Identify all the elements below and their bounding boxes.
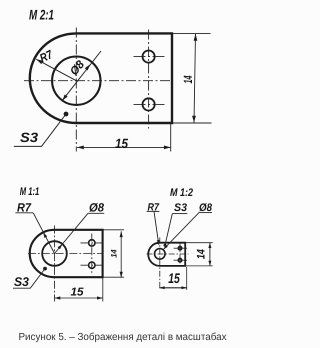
svg-text:14: 14 [196,249,208,259]
svg-text:Ø8: Ø8 [68,58,87,78]
svg-text:M 1:2: M 1:2 [170,187,193,199]
svg-text:15: 15 [71,286,85,298]
svg-text:S3: S3 [14,275,29,289]
svg-text:14: 14 [110,249,119,258]
svg-text:R7: R7 [17,200,32,214]
svg-text:15: 15 [168,270,180,286]
svg-text:Рисунок 5. – Зображення деталі: Рисунок 5. – Зображення деталі в масштаб… [19,332,227,343]
svg-text:Ø8: Ø8 [199,202,213,214]
svg-text:15: 15 [115,136,128,151]
svg-text:Ø8: Ø8 [89,201,104,215]
svg-text:S3: S3 [20,130,39,145]
svg-text:R7: R7 [148,201,160,213]
svg-text:14: 14 [181,75,195,83]
svg-text:M 2:1: M 2:1 [29,7,54,23]
svg-text:S3: S3 [174,202,187,214]
svg-text:M 1:1: M 1:1 [20,186,40,198]
